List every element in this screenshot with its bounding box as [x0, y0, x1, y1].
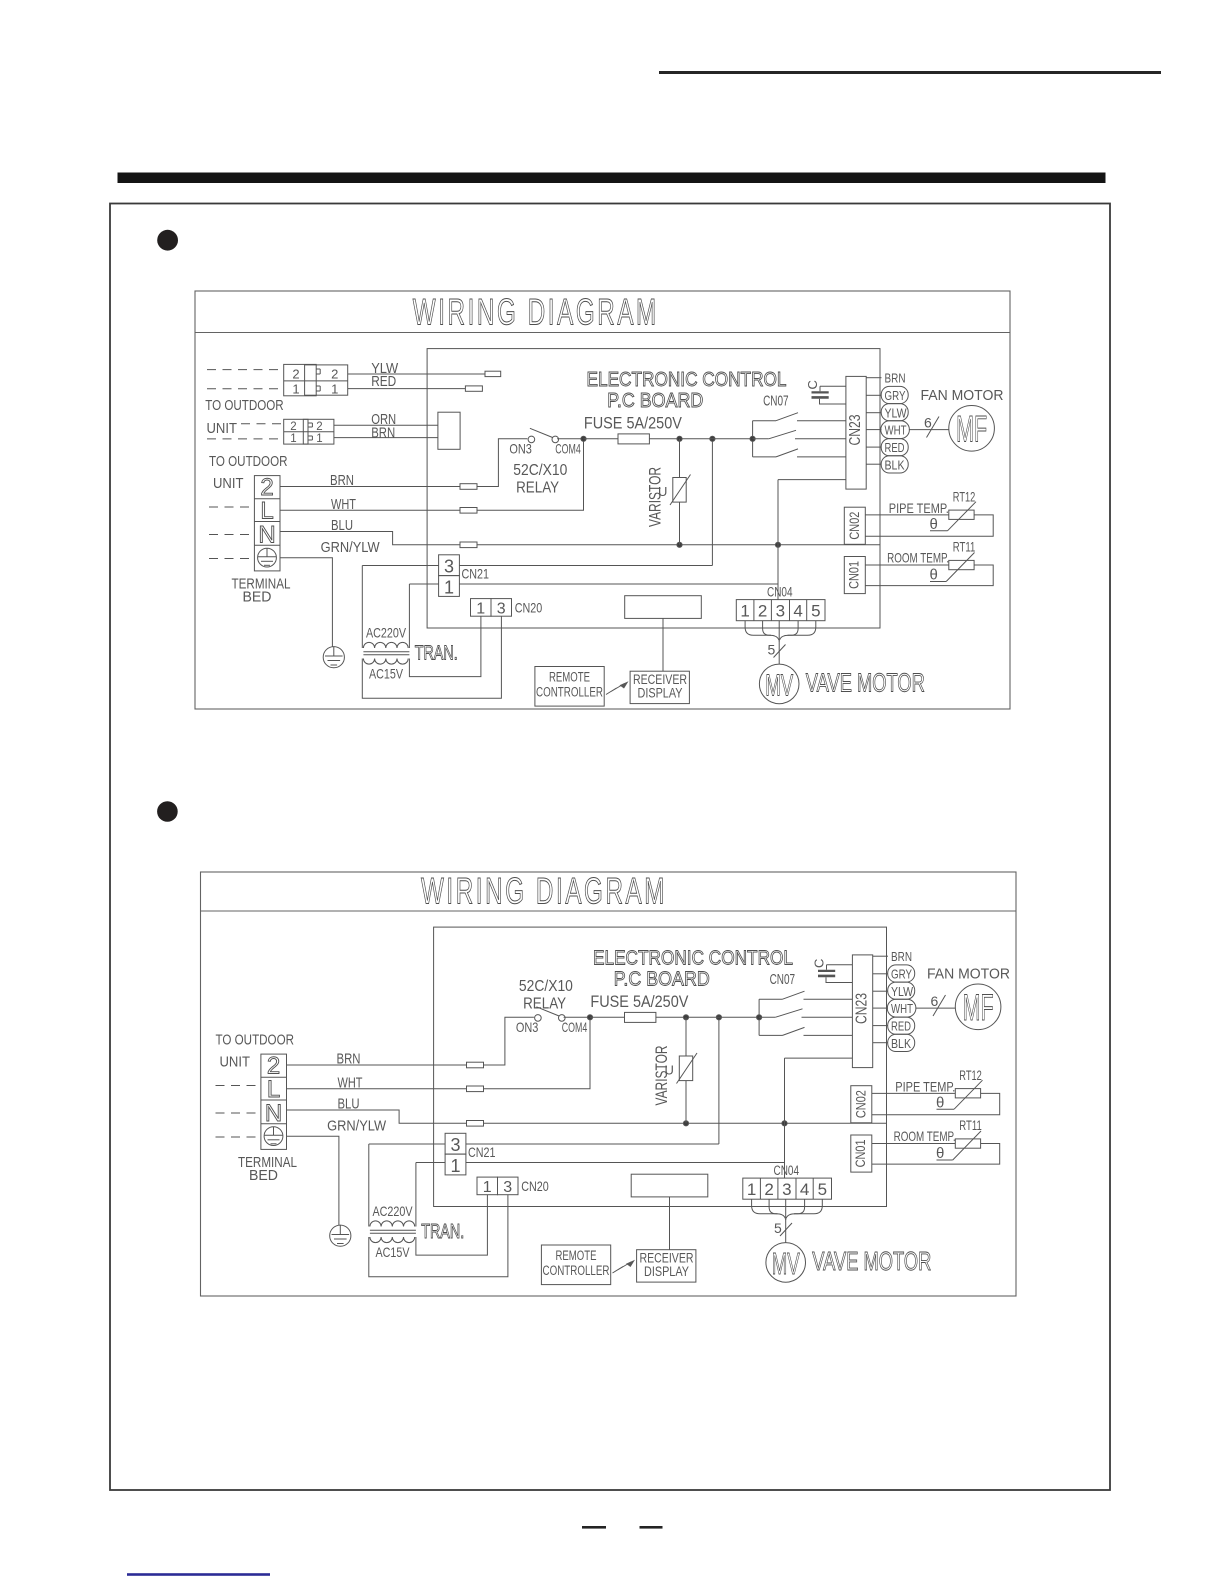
svg-text:2: 2 — [316, 421, 322, 433]
bullet 2 — [157, 801, 178, 822]
connector pair P2 (to outdoor unit) — [284, 419, 308, 444]
diagram 1 border — [195, 291, 1010, 709]
svg-text:RED: RED — [371, 373, 396, 390]
wire YLW — [348, 373, 485, 375]
thick section bar — [118, 173, 1106, 184]
svg-text:52C/X10: 52C/X10 — [519, 978, 573, 995]
svg-text:WIRING DIAGRAM: WIRING DIAGRAM — [421, 871, 667, 912]
connector pair P1 (to outdoor unit) — [284, 364, 317, 395]
svg-text:BRN: BRN — [371, 425, 395, 442]
svg-text:WIRING DIAGRAM: WIRING DIAGRAM — [413, 292, 659, 333]
svg-text:1: 1 — [316, 433, 322, 445]
svg-text:1: 1 — [290, 433, 296, 445]
header rule top right — [659, 71, 1161, 74]
svg-text:2: 2 — [292, 367, 299, 382]
svg-text:TO OUTDOOR: TO OUTDOOR — [205, 398, 284, 414]
wire ORN — [334, 424, 438, 426]
pcb input block — [438, 412, 460, 449]
title band line — [195, 332, 1010, 334]
page number dashes — [582, 1526, 606, 1529]
wire BRN — [334, 437, 438, 439]
svg-text:52C/X10: 52C/X10 — [513, 462, 567, 479]
svg-text:RELAY: RELAY — [516, 480, 559, 497]
title band line — [201, 910, 1017, 912]
bullet 1 — [157, 230, 178, 251]
wire RED — [348, 388, 466, 390]
svg-text:1: 1 — [331, 382, 338, 397]
footer blue rule — [127, 1573, 270, 1576]
svg-text:2: 2 — [331, 367, 338, 382]
svg-text:UNIT: UNIT — [207, 421, 238, 437]
page frame — [110, 204, 1110, 1491]
diagram 2 border — [201, 872, 1017, 1296]
dashed stubs left of P2 — [241, 423, 284, 425]
svg-text:2: 2 — [290, 421, 296, 433]
dashed stubs left of P1 — [207, 369, 284, 371]
svg-text:1: 1 — [292, 382, 299, 397]
svg-text:RELAY: RELAY — [523, 996, 566, 1013]
